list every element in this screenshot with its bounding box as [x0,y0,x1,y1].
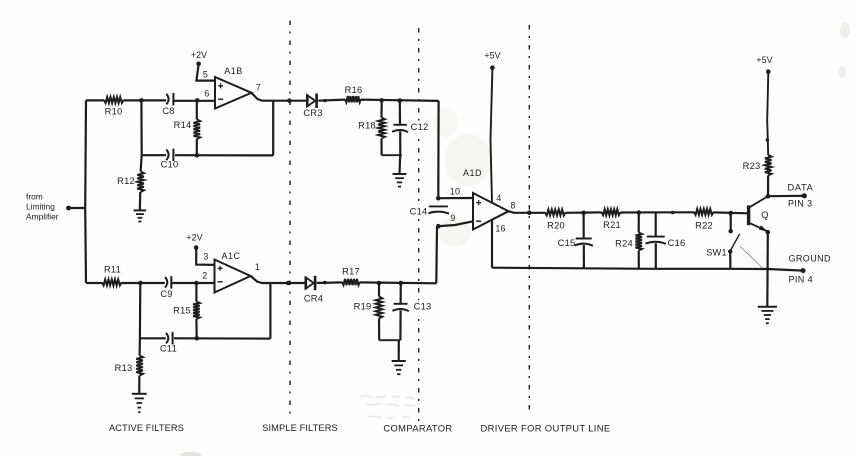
wire R10 to C8 [124,99,167,101]
wire collector to R23 [767,176,769,197]
wire C8 to pin6 [173,100,215,102]
svg-text:SW1: SW1 [706,248,727,258]
svg-text:DATA: DATA [788,183,814,193]
svg-text:PIN 4: PIN 4 [789,275,814,285]
svg-text:C16: C16 [668,238,686,248]
svg-text:R22: R22 [695,221,713,231]
wire C9 to pin2 [171,282,214,284]
wire C11 to R13 branch [140,337,166,339]
wire CR3 to R16 [318,100,345,101]
capacitor C11 [166,333,168,344]
wire C12 to joint [399,131,401,155]
node collector junction [766,194,771,199]
resistor R19 stub [378,283,380,297]
capacitor C15 stub [582,213,584,239]
wire input node to left vertical [69,207,87,209]
node GROUND terminal [801,268,806,273]
wire R24 to rail [638,251,640,269]
wire +5V to pin 4 [491,69,493,203]
capacitor C16 [647,236,665,238]
node from Limiting Amplifier [66,206,71,211]
svg-text:C8: C8 [162,106,174,116]
wire left vertical bus [84,100,87,283]
node pin9 junction [436,224,441,229]
svg-text:1: 1 [255,262,260,272]
capacitor C12 [393,124,407,126]
svg-text:R24: R24 [615,239,633,249]
node R15 bottom [195,336,200,341]
svg-text:A1B: A1B [224,66,243,76]
diode CR3 [307,95,315,107]
svg-text:C9: C9 [160,289,172,299]
wire A1C output [251,276,271,283]
wire A1B out to CR3 [273,100,307,102]
wire R19 to joint [378,319,380,341]
node R24 top [637,210,642,215]
capacitor C8 [166,94,168,105]
capacitor C15 [576,238,592,240]
svg-text:3: 3 [203,252,208,262]
node R14 bottom [195,153,200,158]
wire ground rail [492,268,803,271]
wire +2V to pin 5 [196,65,215,81]
capacitor C14 [429,205,448,207]
svg-text:Q: Q [761,210,768,220]
resistor R15 stub top [195,283,197,302]
wire R23 to +5V [767,73,768,156]
resistor R18 [378,118,385,139]
svg-text:C13: C13 [414,302,432,312]
svg-text:R10: R10 [105,107,123,117]
svg-text:PIN 3: PIN 3 [788,199,813,209]
node +2V terminal upper [196,62,201,67]
wire R12 to ground [139,192,142,210]
svg-text:C12: C12 [411,122,429,132]
ground lower simple filter [392,360,406,362]
node at divider upper [287,98,292,103]
node R18 top [379,98,384,103]
svg-text:R16: R16 [345,85,363,95]
wire C10 to R12 branch [141,154,166,156]
node junction R10/C8/R12 branch [139,98,144,103]
svg-text:+2V: +2V [186,233,202,243]
svg-text:R19: R19 [354,302,372,312]
resistor R16 [345,96,361,102]
resistor R24 [635,233,642,251]
transistor Q base bar [747,205,750,225]
svg-text:SIMPLE FILTERS: SIMPLE FILTERS [262,423,338,433]
svg-text:10: 10 [450,187,460,197]
svg-text:R23: R23 [743,161,761,171]
resistor R20 [545,209,566,215]
node CR3 cathode [323,99,326,102]
wire R13 branch vertical [139,283,142,356]
svg-text:9: 9 [450,213,455,223]
svg-text:R13: R13 [115,363,133,373]
label C12 [410,121,430,133]
wire R16 to corner [361,100,439,101]
svg-text:R17: R17 [342,267,360,277]
wire R11 to C9 [122,282,165,284]
svg-text:C11: C11 [160,344,177,354]
wire R12 branch vertical [141,100,142,171]
op-amp A1D [473,193,509,230]
wire joint to ground upper filter [398,155,401,174]
svg-text:C15: C15 [558,238,576,248]
capacitor C13 [394,303,408,305]
wire R21 to R22 [621,211,695,213]
node CR4 cathode [323,281,327,285]
svg-text:COMPARATOR: COMPARATOR [383,423,452,434]
divider simple filters/comparator [418,28,420,421]
wire joint to ground lower filter [398,340,400,361]
wire lower filter to pin9 vertical [435,226,438,283]
divider comparator/driver [528,25,530,415]
wire DATA line [768,195,804,198]
wire C15 to rail [583,245,585,269]
node pin10 junction [436,196,441,201]
svg-text:CR3: CR3 [303,108,322,118]
svg-text:+2V: +2V [191,50,207,60]
svg-text:8: 8 [510,201,515,211]
svg-text:R11: R11 [104,265,121,275]
wire pin 10 [438,197,473,199]
wire A1B feedback box right edge [272,101,274,156]
svg-text:2: 2 [202,271,207,281]
label C13 [412,300,433,313]
node SW1 branch [728,211,733,216]
resistor R22 [694,209,714,215]
svg-text:ACTIVE FILTERS: ACTIVE FILTERS [109,423,184,433]
resistor R21 [602,209,621,215]
switch SW1 bottom contact [728,249,732,253]
ground below R12 [134,209,147,211]
node C16 top [671,211,675,215]
wire A1D output [509,211,546,213]
ground below R13 [132,393,147,395]
resistor R24 stub [638,213,640,233]
node C15 top [581,211,586,216]
wire R18-C12 bottom joint [382,154,402,156]
wire upper filter to pin10 vertical [437,101,440,198]
node C13 top [399,281,404,286]
wire R22 to Q base [714,211,748,214]
wire A1C out to CR4 [270,282,305,284]
wire R18 to joint [380,139,382,156]
wire R14 stub bottom [196,139,198,155]
wire emitter to rail [766,232,768,269]
node +5V terminal comparator [490,65,495,70]
node small blob on +5V wire [766,138,769,141]
wire pin 16 down [491,220,493,268]
node R15 top [194,281,199,286]
wire R17 to corner [360,281,436,284]
divider active/simple filters [289,21,291,416]
node R19 top [377,281,382,286]
capacitor C12 stub [399,100,401,124]
wire C16 to rail [655,243,657,269]
svg-text:C10: C10 [161,160,179,170]
node junction R11/C9/R13 branch [138,281,143,286]
wire CR4 to R17 [317,281,342,284]
svg-text:4: 4 [496,193,501,203]
wire upper row left [86,99,104,101]
wire SW1 upper stub [730,213,732,231]
wire A1C feedback box right edge [269,283,271,339]
node at divider driver [527,211,532,216]
svg-text:R21: R21 [603,220,621,230]
resistor R23 [765,155,772,176]
transistor Q emitter [749,223,768,232]
resistor R14 stub top [196,100,198,119]
resistor R18 stub [380,100,382,117]
svg-text:7: 7 [256,83,261,93]
wire C13 to joint [399,310,401,340]
svg-text:R12: R12 [117,176,135,186]
svg-text:5: 5 [203,70,208,80]
node +5V terminal driver [766,69,771,74]
resistor R17 [342,279,360,285]
transistor Q collector [749,196,768,208]
diode CR4 [306,277,314,289]
svg-text:CR4: CR4 [304,294,323,304]
svg-text:DRIVER FOR OUTPUT LINE: DRIVER FOR OUTPUT LINE [481,423,611,434]
node R14 top [195,98,200,103]
switch SW1 blade [730,234,740,251]
svg-text:R15: R15 [173,306,191,316]
resistor R10 [104,97,124,103]
op-amp A1B [215,77,252,109]
capacitor C16 stub [655,213,657,237]
ground below Q emitter [758,306,777,308]
node at divider lower [286,281,291,286]
resistor R11 [102,279,122,285]
wire R20 to R21 [566,211,602,214]
wire pin 9 [438,221,473,226]
svg-text:6: 6 [204,89,209,99]
op-amp A1C [215,260,251,293]
ground upper simple filter [393,173,407,175]
wire A1B output [252,93,274,101]
stray thin diagonal near SW1 [740,246,763,268]
label C14 [408,205,429,218]
wire R13 to ground [138,376,140,394]
svg-text:16: 16 [495,224,505,234]
resistor R13 [136,356,143,376]
capacitor C10 [166,150,168,161]
resistor R14 [194,120,201,140]
svg-text:R14: R14 [174,120,192,130]
wire R15 stub bottom [195,319,198,339]
svg-text:Limiting: Limiting [26,202,55,212]
capacitor C13 stub [400,283,402,304]
wire rail to ground symbol [766,269,768,307]
switch SW1 top contact [729,229,733,233]
wire upper feedback row [175,154,273,156]
svg-text:A1C: A1C [221,251,240,261]
svg-text:R20: R20 [547,221,565,231]
node +2V terminal lower [194,245,199,250]
svg-text:C14: C14 [410,207,428,217]
resistor R19 [376,297,383,319]
capacitor C9 [165,277,167,288]
wire R19-C13 bottom joint [379,339,400,341]
svg-text:+5V: +5V [484,51,500,61]
resistor R15 [193,302,200,320]
node C12 top [398,98,403,103]
node emitter junction [766,230,771,235]
wire lower row left [86,282,102,284]
svg-text:GROUND: GROUND [789,254,831,264]
svg-text:from: from [26,192,43,202]
node DATA terminal [802,193,807,198]
svg-text:Amplifier: Amplifier [26,212,59,222]
wire lower feedback row [174,337,270,340]
wire SW1 lower stub [729,252,731,269]
svg-text:A1D: A1D [463,168,482,178]
wire +2V to pin 3 [196,249,214,265]
resistor R12 [137,172,144,193]
svg-text:R18: R18 [358,121,376,131]
svg-text:+5V: +5V [756,55,772,65]
